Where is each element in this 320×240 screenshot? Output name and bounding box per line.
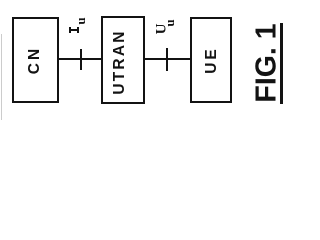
label Iu subscript u <box>73 17 89 24</box>
label Iu : serif capital I drawn as H-shape (rotated) <box>69 27 71 34</box>
label UTRAN <box>111 30 129 95</box>
tick Iu interface <box>80 49 82 70</box>
label FIG. 1 <box>250 23 283 102</box>
label UE <box>203 47 221 75</box>
wire UTRAN-UE <box>144 58 191 60</box>
tick Uu interface <box>166 48 168 71</box>
wire CN-UTRAN <box>57 58 103 60</box>
box CN <box>12 17 59 103</box>
label Uu subscript u <box>162 19 178 26</box>
label Uu capital U <box>154 23 171 34</box>
box UE <box>190 17 233 104</box>
underline of FIG. 1 <box>280 23 283 104</box>
label CN <box>26 46 44 74</box>
box UTRAN <box>101 16 145 104</box>
scan artifact: faint left edge line <box>1 34 2 120</box>
